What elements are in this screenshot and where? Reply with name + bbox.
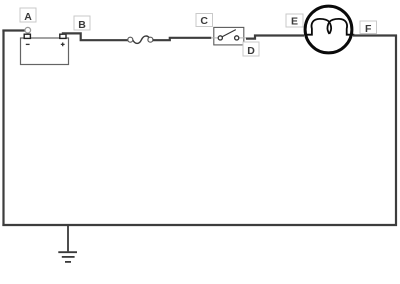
svg-text:C: C	[200, 15, 208, 27]
label F	[360, 21, 377, 35]
wire: fuse to switch	[153, 38, 211, 40]
node: battery negative post (open circle)	[25, 27, 31, 33]
wire: left rail (battery negative down to bottom)	[2, 30, 4, 226]
svg-text:F: F	[365, 23, 372, 35]
label C	[196, 14, 213, 27]
label D	[243, 42, 259, 57]
wire: battery positive to fuse	[63, 33, 128, 40]
svg-text:B: B	[78, 19, 86, 31]
wire: battery negative terminal to left rail	[2, 29, 26, 31]
battery	[21, 34, 69, 64]
wire: switch to lamp	[246, 36, 304, 39]
lamp	[304, 6, 354, 53]
svg-text:A: A	[24, 11, 32, 23]
svg-text:D: D	[247, 45, 255, 57]
wire: lamp to right rail	[353, 34, 397, 36]
svg-text:E: E	[291, 15, 298, 27]
label E	[286, 14, 303, 27]
fuse	[128, 36, 153, 43]
wire: right rail (lamp output down to bottom)	[395, 35, 397, 226]
label B	[74, 16, 90, 31]
switch	[211, 27, 246, 45]
ground	[58, 225, 77, 262]
wire: bottom rail	[2, 224, 397, 226]
label A	[20, 8, 36, 23]
